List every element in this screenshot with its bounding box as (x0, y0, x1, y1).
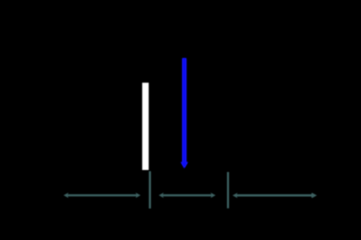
tick mark 1 (below white bar) (149, 171, 151, 208)
right double arrow (233, 193, 317, 198)
middle double arrow (159, 193, 216, 198)
blue arrow pointing down (181, 58, 188, 168)
tick mark 2 (227, 172, 229, 208)
white bar (barrier) (142, 83, 149, 170)
left double arrow (64, 193, 141, 198)
